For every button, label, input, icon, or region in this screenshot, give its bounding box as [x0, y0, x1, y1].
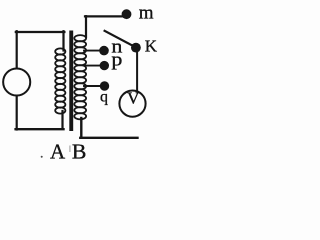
wire bottom of left loop	[16, 128, 64, 130]
wire secondary bottom lead	[80, 118, 82, 138]
wire secondary top lead	[85, 16, 87, 37]
svg-text:K: K	[145, 37, 158, 56]
wire top of left loop	[16, 31, 65, 33]
wire left vertical upper	[16, 31, 18, 68]
svg-text:m: m	[139, 2, 154, 23]
svg-text:B: B	[72, 140, 87, 164]
switch K lever	[105, 31, 134, 47]
inductor primary coil A	[55, 48, 65, 113]
wire tap q	[84, 85, 100, 87]
voltmeter V1	[119, 91, 145, 117]
inductor secondary coil B	[74, 35, 86, 119]
wire tap n	[84, 50, 100, 52]
wire primary bottom lead	[61, 111, 63, 129]
wire switch K to voltmeter	[136, 50, 138, 90]
wire primary top lead	[62, 31, 64, 50]
wire tap p	[84, 65, 100, 67]
faint scan mark before label B	[69, 146, 70, 153]
svg-text:V: V	[127, 89, 140, 108]
terminal p dot	[100, 61, 109, 70]
scan speck left of label A	[41, 156, 43, 158]
svg-text:q: q	[100, 89, 108, 106]
terminal m dot	[122, 9, 132, 19]
svg-text:A: A	[50, 140, 66, 164]
wire to terminal m	[85, 15, 123, 17]
terminal n dot	[99, 46, 109, 56]
switch K terminal dot	[131, 43, 141, 53]
wire left vertical lower	[16, 96, 18, 130]
AC source G1	[3, 68, 30, 95]
terminal q dot	[100, 81, 109, 90]
wire bottom right	[80, 137, 137, 139]
svg-text:p: p	[111, 50, 122, 71]
transformer core	[69, 31, 73, 132]
